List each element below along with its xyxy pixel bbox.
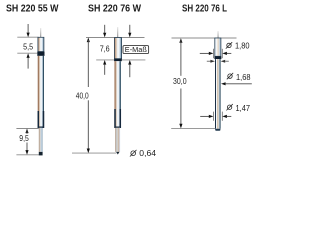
diameter 1,80 extension ticks — [212, 49, 214, 58]
diameter 1,47 right arrow — [222, 115, 227, 118]
barrel lower sleeve U (middle probe) — [115, 109, 120, 127]
bottom end cap (right probe) — [215, 129, 220, 131]
cone tip (middle probe) — [116, 152, 119, 155]
diameter 1,80 right arrow — [222, 52, 227, 55]
dimension 7,6 bottom arrow+line — [103, 60, 106, 65]
extension line head top (right probe) — [172, 37, 237, 39]
dimension 30,0 line with arrows — [179, 38, 182, 43]
barrel (right probe) — [215, 59, 220, 129]
extension line head top (left probe) — [17, 36, 38, 38]
extension line base plane (right probe) — [171, 128, 215, 130]
svg-text:30,0: 30,0 — [173, 77, 187, 86]
svg-text:40,0: 40,0 — [76, 92, 89, 101]
barrel (left probe) — [38, 56, 44, 128]
diameter 1,80 left arrow — [200, 52, 210, 54]
extension line mounting plane 7,6 bottom (middle probe) — [96, 59, 145, 61]
E-Mass label box — [123, 46, 149, 54]
svg-text:SH 220 55 W: SH 220 55 W — [6, 4, 59, 15]
dimension 5,5 bottom arrow+line — [27, 53, 30, 58]
dimension 7,6 top line+arrow — [104, 25, 106, 34]
extension line head top (middle probe) — [86, 37, 145, 39]
extension line 9,5 bottom (left probe) — [16, 154, 39, 156]
dimension 9,5 line with arrows — [25, 129, 28, 134]
svg-text:7,6: 7,6 — [100, 45, 110, 54]
extension line 9,5 top (left probe) — [16, 128, 38, 130]
extension line mounting plane 5,5 bottom (left probe) — [17, 52, 37, 54]
barrel lower sleeve U (left probe) — [38, 111, 43, 127]
svg-text:1,68: 1,68 — [236, 73, 251, 82]
svg-text:E-Maß: E-Maß — [125, 47, 147, 54]
diameter 1,47 left arrow — [200, 115, 209, 117]
diameter symbol 0,64 (middle probe tip) — [131, 151, 136, 156]
dimension 40,0 line with arrows — [87, 38, 90, 43]
svg-text:SH 220 76 L: SH 220 76 L — [182, 4, 227, 15]
collar ring (right probe) — [214, 56, 221, 59]
diameter symbol 1,47 — [227, 105, 231, 109]
extension line probe tip 40,0 bottom (middle probe) — [72, 152, 116, 154]
tail end block (left probe) — [39, 152, 43, 156]
svg-text:1,80: 1,80 — [235, 41, 250, 50]
probe head (middle probe) — [114, 38, 121, 59]
dimension E-Mass top line+arrow — [129, 25, 131, 34]
plunger needle tip (middle probe) — [116, 27, 119, 38]
collar ring (left probe) — [37, 52, 44, 56]
lower tube (middle probe) — [115, 128, 120, 152]
plunger needle tip (right probe) — [217, 31, 220, 38]
dimension 5,5 top line+arrow — [27, 24, 29, 33]
svg-text:9,5: 9,5 — [19, 134, 29, 143]
probe head (left probe) — [38, 37, 44, 51]
diameter symbol 1,80 — [227, 43, 231, 47]
dimension E-Mass bottom arrow+line — [128, 60, 131, 65]
barrel (middle probe) — [115, 61, 121, 128]
wire-wrap tail (left probe) — [39, 128, 43, 152]
svg-text:5,5: 5,5 — [23, 43, 33, 52]
leader arrow for 1,68 — [221, 82, 226, 85]
diameter 1,47 extension ticks — [212, 112, 214, 121]
svg-text:1,47: 1,47 — [236, 104, 251, 113]
collar ring (middle probe) — [114, 59, 122, 62]
diameter 1,68 arrows at barrel — [207, 60, 211, 62]
diameter symbol 1,68 — [228, 74, 232, 78]
plunger needle tip (left probe) — [39, 28, 42, 37]
svg-text:0,64: 0,64 — [139, 149, 156, 158]
probe head (right probe) — [215, 38, 221, 56]
svg-text:SH 220 76 W: SH 220 76 W — [88, 4, 141, 15]
